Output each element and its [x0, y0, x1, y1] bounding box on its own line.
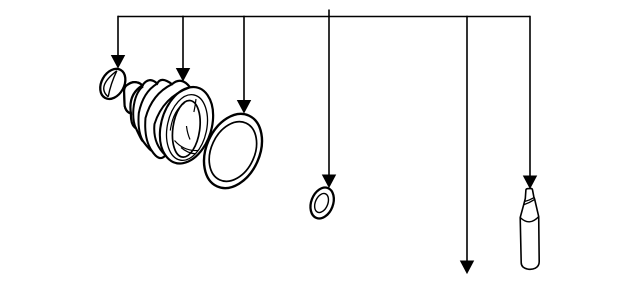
boot pleat arc 3 [145, 84, 172, 151]
small ring seal inner [312, 191, 331, 214]
small clamp band (part 1) [95, 64, 130, 103]
clamp 1 outer band oval [95, 64, 130, 103]
arrowhead 3 [238, 101, 251, 113]
CV boot (part 2) [124, 80, 213, 164]
leader line 4 [328, 16, 330, 176]
arrowhead 5 [461, 261, 474, 273]
boot interior top-right line [194, 99, 196, 112]
boot pleat arc 1 [133, 86, 143, 128]
boot interior mid arc [187, 126, 191, 140]
boot mouth left edge [160, 87, 190, 155]
boot interior bottom arc B [181, 148, 196, 154]
leader line 1 [117, 16, 119, 57]
tube outline [520, 188, 539, 269]
leader line 6 [529, 16, 531, 177]
leader line 3 [243, 16, 245, 102]
tube collar seam upper [525, 198, 535, 202]
arrowhead 4 [323, 175, 336, 187]
small ring seal outer [306, 184, 338, 222]
boot interior bottom arc A [175, 141, 199, 151]
clamp 1 inner edge left arc [104, 71, 117, 97]
boot pleat arc 4 [154, 87, 190, 155]
arrowhead 6 [524, 176, 537, 188]
boot body silhouette [124, 80, 213, 164]
tube collar seam lower [524, 199, 535, 204]
grease tube (part 6) [520, 188, 539, 269]
arrowhead 1 [112, 56, 125, 68]
large clamp ring outer [193, 105, 273, 198]
tube body top seam [520, 217, 539, 222]
large clamp ring inner [200, 114, 266, 189]
large clamp ring (part 3) [193, 105, 273, 198]
leader stub up to callout [328, 10, 330, 17]
boot neck [124, 82, 142, 113]
leader line 2 [182, 16, 184, 70]
boot interior wall arc [170, 103, 184, 131]
small ring seal (part 4) [306, 184, 338, 222]
leader top horizontal line [118, 16, 530, 18]
boot opening [169, 99, 203, 159]
boot mouth bead line [161, 91, 213, 164]
boot pleat arc 2 [138, 84, 157, 141]
leader line 5 [466, 16, 468, 262]
clamp 1 inner edge chord [108, 71, 117, 97]
arrowhead 2 [177, 69, 190, 81]
